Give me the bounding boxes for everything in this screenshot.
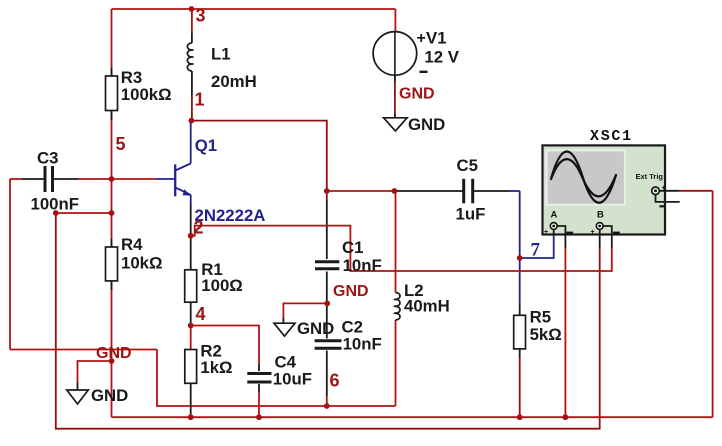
svg-text:10nF: 10nF (343, 256, 382, 275)
node 7 dot (517, 255, 523, 261)
inductor L2 (394, 293, 400, 320)
emitter node2 dot (188, 233, 194, 239)
gnd C1C2 junction dot (324, 301, 330, 307)
resistor R5 (514, 315, 526, 349)
ground symbol V1 (384, 118, 408, 131)
wire bottom rail y429 to B+ (56, 213, 600, 429)
wire L2 bottom (395, 320, 397, 406)
wire C3 right lead to node5 (53, 178, 78, 180)
svg-text:GND: GND (408, 115, 445, 134)
svg-text:2: 2 (194, 218, 204, 238)
wire C5 run right (473, 190, 510, 192)
C2 bottom dot (324, 403, 330, 409)
wire node5 spur to x55 (56, 212, 112, 214)
wire L2 top red (395, 191, 397, 293)
svg-text:+: + (544, 229, 548, 236)
svg-text:L1: L1 (211, 45, 231, 64)
resistor R2 (185, 350, 197, 384)
capacitor C2 (315, 341, 342, 348)
wire ext trig minus bracket (656, 194, 680, 202)
R2 bottom dot (188, 414, 194, 420)
wire node1 from collector to C1 top (191, 121, 326, 191)
node 1 junction (189, 118, 195, 124)
wire C5 run left (394, 190, 463, 192)
node 4 dot (188, 323, 194, 329)
svg-text:C2: C2 (342, 317, 363, 336)
svg-text:C1: C1 (342, 238, 363, 257)
wire V1 top drop (394, 9, 396, 32)
resistor R4 (106, 239, 118, 290)
wire y191 node1 to L2 top (327, 190, 395, 192)
svg-text:1uF: 1uF (456, 205, 486, 224)
svg-text:Q1: Q1 (195, 136, 217, 155)
wire node4 to C4 (191, 326, 259, 365)
wire A+ navy to node7 (520, 236, 554, 258)
wire A- drop lower (564, 248, 566, 417)
svg-text:12 V: 12 V (424, 48, 459, 67)
svg-text:40mH: 40mH (404, 297, 450, 316)
wire C3 left drop x10 (9, 179, 11, 350)
wire base lead (112, 178, 157, 180)
wire B+ stub (599, 228, 601, 248)
gnd triangle branch dot (109, 358, 115, 364)
svg-text:+: + (417, 30, 426, 47)
resistor R1 (185, 270, 197, 302)
svg-text:+: + (591, 229, 595, 236)
svg-text:5kΩ: 5kΩ (530, 325, 562, 344)
wire gnd-label rail y349 (10, 349, 157, 351)
inductor L1 (187, 9, 193, 121)
R5 bottom dot (517, 414, 523, 420)
ground symbol middle (274, 323, 295, 336)
wire gnd node to C2 top (326, 303, 328, 338)
C4 bottom dot (256, 414, 262, 420)
svg-text:GND: GND (297, 319, 334, 338)
svg-text:10kΩ: 10kΩ (121, 254, 162, 273)
wire B- stub (602, 226, 612, 248)
svg-text:4: 4 (196, 304, 206, 324)
node 5 junction spur (109, 210, 115, 216)
svg-text:XSC1: XSC1 (590, 128, 633, 145)
wire x157 drop to y406 (157, 350, 396, 407)
wire ext-trig right vertical (712, 191, 714, 417)
capacitor C3 (45, 166, 53, 192)
wire R5 bottom to gnd rail (519, 349, 521, 358)
wire ground rail y417 (112, 416, 713, 418)
svg-text:3: 3 (196, 6, 206, 26)
svg-text:A: A (551, 210, 558, 221)
wire node2 emitter jog to B- (191, 226, 612, 271)
wire A- stub (556, 226, 565, 248)
svg-text:10nF: 10nF (343, 335, 382, 354)
wire left vertical R3/R4 column (111, 9, 113, 417)
node 5 junction C3 (109, 176, 115, 182)
wire C3 left lead (10, 178, 22, 180)
svg-text:7: 7 (531, 240, 541, 261)
svg-text:20mH: 20mH (211, 72, 257, 91)
terminal Ext Trig (652, 187, 660, 195)
svg-text:1kΩ: 1kΩ (200, 358, 232, 377)
spur corner dot (53, 210, 59, 216)
transistor Q1 (175, 122, 191, 205)
svg-text:6: 6 (330, 371, 340, 391)
svg-text:V1: V1 (426, 29, 447, 48)
wire C1 top lead from node1 (326, 191, 328, 200)
svg-text:2N2222A: 2N2222A (195, 206, 266, 225)
wire R2 bottom (190, 383, 192, 417)
svg-text:100kΩ: 100kΩ (121, 85, 172, 104)
capacitor C4 (247, 374, 271, 383)
svg-text:+: + (662, 185, 666, 192)
ext trig minus sign (660, 205, 666, 207)
svg-text:R4: R4 (121, 235, 143, 254)
junction node dots (53, 6, 568, 420)
svg-text:R5: R5 (530, 307, 551, 326)
svg-text:GND: GND (91, 386, 128, 405)
resistor R3 (106, 68, 118, 120)
L2 top rail dot (392, 188, 398, 194)
svg-text:GND: GND (399, 86, 435, 103)
C1 top rail dot (324, 188, 330, 194)
wire C4 bottom (258, 384, 260, 392)
svg-text:1: 1 (195, 90, 205, 110)
wire gnd spur from C1C2 junction (283, 303, 327, 318)
A- bottom dot (563, 414, 569, 420)
node 3 junction (189, 6, 195, 12)
wire node4 to R2 (190, 326, 192, 350)
wire node7 down to R5 (519, 258, 521, 305)
capacitor C5 (464, 179, 473, 204)
wire top rail node 3 (112, 8, 396, 10)
capacitor C1 (315, 262, 339, 269)
wire C2 bottom to y406 (326, 351, 328, 397)
wire emitter down (190, 204, 192, 236)
oscilloscope XSC1 (543, 145, 680, 248)
svg-text:Ext Trig: Ext Trig (636, 172, 664, 181)
svg-text:C5: C5 (457, 156, 478, 175)
svg-text:C3: C3 (37, 149, 58, 168)
wire R1 leads (190, 236, 192, 270)
wire ext trig plus outer (680, 190, 713, 192)
source V1 (373, 32, 417, 118)
svg-text:100Ω: 100Ω (201, 276, 242, 295)
wire ext trig plus stub (658, 190, 680, 192)
wire A+ stub (553, 228, 555, 236)
svg-text:5: 5 (116, 134, 126, 154)
svg-text:B: B (597, 210, 604, 221)
svg-text:10uF: 10uF (273, 370, 312, 389)
wire C1 bottom to gnd node (326, 272, 328, 304)
svg-text:GND: GND (333, 283, 369, 300)
ground symbol left (67, 361, 112, 404)
